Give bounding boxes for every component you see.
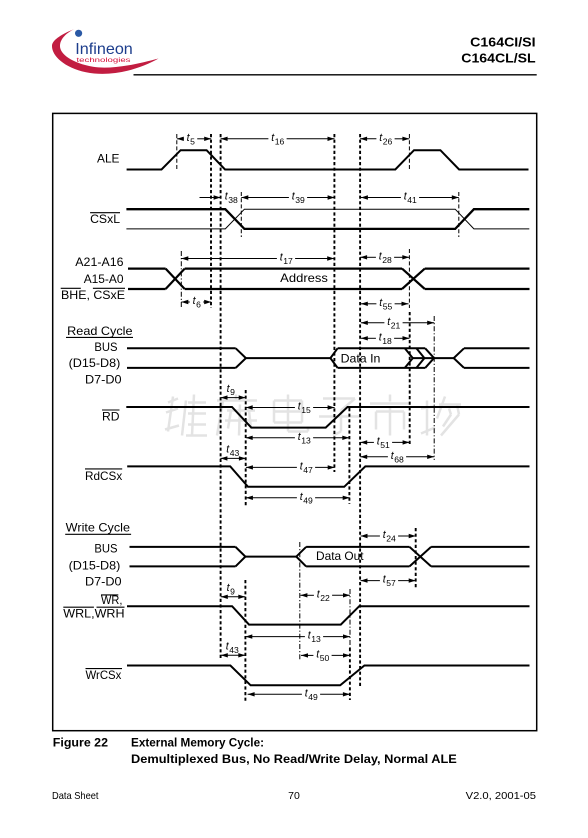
svg-text:41: 41 <box>407 195 417 205</box>
svg-text:21: 21 <box>391 320 401 330</box>
svg-text:RdCSx: RdCSx <box>85 469 122 483</box>
svg-text:RD: RD <box>102 410 120 424</box>
svg-text:Figure 22: Figure 22 <box>53 738 108 750</box>
svg-text:BUS: BUS <box>94 542 117 556</box>
svg-text:9: 9 <box>230 387 235 397</box>
svg-text:V2.0, 2001-05: V2.0, 2001-05 <box>466 790 537 802</box>
svg-text:A21-A16: A21-A16 <box>75 255 124 269</box>
svg-text:70: 70 <box>288 790 300 802</box>
svg-text:D7-D0: D7-D0 <box>85 372 122 386</box>
svg-text:Address: Address <box>280 271 328 285</box>
svg-text:Write Cycle: Write Cycle <box>66 521 131 535</box>
svg-text:38: 38 <box>228 195 238 205</box>
svg-text:External Memory Cycle:: External Memory Cycle: <box>131 738 264 750</box>
svg-text:ALE: ALE <box>97 151 120 165</box>
svg-text:Read Cycle: Read Cycle <box>67 324 133 338</box>
svg-text:13: 13 <box>301 435 311 445</box>
svg-text:39: 39 <box>295 195 305 205</box>
svg-text:C164CL/SL: C164CL/SL <box>461 50 535 65</box>
svg-text:C164CI/SI: C164CI/SI <box>470 34 535 49</box>
svg-text:49: 49 <box>308 692 318 702</box>
svg-text:9: 9 <box>230 586 235 596</box>
svg-text:26: 26 <box>383 136 393 146</box>
svg-text:WRL,WRH: WRL,WRH <box>63 606 124 620</box>
svg-text:Demultiplexed Bus, No Read/Wri: Demultiplexed Bus, No Read/Write Delay, … <box>131 754 457 766</box>
svg-text:17: 17 <box>283 256 293 266</box>
svg-text:technologies: technologies <box>77 57 132 64</box>
svg-text:49: 49 <box>303 495 313 505</box>
svg-text:(D15-D8): (D15-D8) <box>69 356 121 370</box>
svg-text:Data In: Data In <box>341 352 381 366</box>
svg-text:D7-D0: D7-D0 <box>85 575 122 589</box>
svg-text:5: 5 <box>190 136 195 146</box>
svg-text:28: 28 <box>382 255 392 265</box>
svg-text:BUS: BUS <box>94 340 117 354</box>
svg-text:WrCSx: WrCSx <box>86 668 122 682</box>
svg-text:A15-A0: A15-A0 <box>84 272 124 286</box>
svg-text:13: 13 <box>311 634 321 644</box>
svg-text:50: 50 <box>320 653 330 663</box>
svg-text:51: 51 <box>380 440 390 450</box>
svg-text:Infineon: Infineon <box>75 41 133 58</box>
svg-text:43: 43 <box>229 645 239 655</box>
svg-text:6: 6 <box>196 300 201 310</box>
svg-text:47: 47 <box>303 465 313 475</box>
svg-text:55: 55 <box>383 301 393 311</box>
svg-text:57: 57 <box>386 578 396 588</box>
svg-text:24: 24 <box>386 534 396 544</box>
svg-text:43: 43 <box>230 448 240 458</box>
svg-text:Data Out: Data Out <box>316 549 364 563</box>
svg-text:18: 18 <box>382 336 392 346</box>
svg-text:(D15-D8): (D15-D8) <box>69 558 121 572</box>
svg-text:16: 16 <box>275 136 285 146</box>
svg-text:BHE, CSxE: BHE, CSxE <box>61 288 125 302</box>
svg-text:15: 15 <box>301 405 311 415</box>
svg-text:Data Sheet: Data Sheet <box>52 790 99 802</box>
svg-text:CSxL: CSxL <box>90 212 120 226</box>
svg-text:68: 68 <box>394 454 404 464</box>
svg-text:22: 22 <box>320 593 330 603</box>
